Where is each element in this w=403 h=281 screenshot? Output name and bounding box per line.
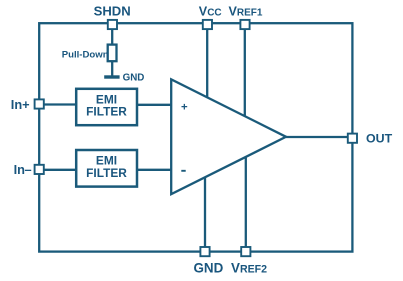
- pin OUT: [348, 134, 357, 143]
- svg-text:+: +: [181, 102, 188, 114]
- wire In+ pin to EMI filter 1: [41, 103, 77, 105]
- outer boundary box: [39, 23, 352, 251]
- svg-text:Pull-Down: Pull-Down: [62, 49, 109, 60]
- svg-text:GND: GND: [194, 260, 224, 275]
- svg-text:OUT: OUT: [366, 131, 393, 145]
- wire GND (bottom pin up to op-amp): [204, 174, 206, 251]
- svg-text:VCC: VCC: [199, 4, 222, 18]
- svg-text:FILTER: FILTER: [86, 166, 127, 180]
- svg-text:VREF1: VREF1: [229, 4, 263, 18]
- wire EMI filter 1 to op-amp + input: [136, 104, 172, 106]
- wire SHDN pin to pull-down resistor: [111, 24, 113, 45]
- op-amp U1 (triangle): [171, 79, 286, 194]
- wire resistor to ground: [111, 61, 113, 76]
- pin In+: [35, 99, 44, 108]
- wire VREF1 (top pin down into op-amp): [244, 24, 246, 118]
- svg-text:In–: In–: [14, 162, 32, 177]
- pin In-: [35, 165, 44, 174]
- pin GND: [200, 247, 209, 256]
- EMI filter block 2: [76, 150, 137, 187]
- pin VCC: [203, 20, 212, 29]
- wire VCC (top pin down into op-amp): [206, 24, 208, 99]
- wire VREF2 (bottom pin up to op-amp): [245, 154, 247, 251]
- wire In- pin to EMI filter 2: [41, 169, 77, 171]
- svg-text:SHDN: SHDN: [94, 3, 131, 18]
- svg-text:GND: GND: [123, 73, 145, 84]
- wire EMI filter 2 to op-amp - input: [136, 169, 172, 171]
- svg-text:In+: In+: [11, 97, 30, 112]
- pin SHDN: [108, 20, 117, 29]
- svg-text:FILTER: FILTER: [86, 105, 127, 119]
- pin VREF2: [241, 247, 250, 256]
- EMI filter block 1: [76, 89, 137, 125]
- wire op-amp output to OUT pin: [286, 136, 349, 138]
- pin VREF1: [240, 20, 249, 29]
- resistor R pull-down: [108, 45, 117, 62]
- svg-text:VREF2: VREF2: [231, 260, 267, 275]
- ground (bar symbol): [104, 75, 119, 78]
- op-amp - input mark: [181, 170, 185, 172]
